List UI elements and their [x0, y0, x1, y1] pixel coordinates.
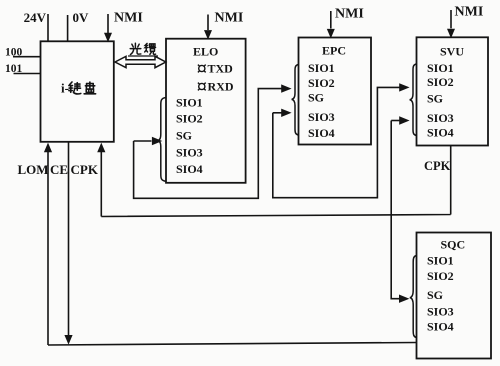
svg-text:24V: 24V — [24, 10, 47, 25]
glyph 光 — [130, 43, 141, 54]
wire LOM with up arrowhead into keyboard — [44, 143, 52, 345]
wire 0V — [67, 15, 69, 41]
label CPK (keyboard) — [71, 162, 99, 177]
label 0V — [73, 10, 90, 25]
svg-text:SIO3: SIO3 — [427, 305, 454, 319]
wire NMI SVU with arrowhead — [447, 10, 455, 38]
wire NMI ELO with arrowhead — [204, 15, 212, 40]
svg-text:SIO4: SIO4 — [427, 320, 454, 334]
svg-text:LOM: LOM — [18, 162, 49, 177]
svg-text:ELO: ELO — [193, 45, 218, 59]
svg-text:RXD: RXD — [208, 79, 234, 93]
symbol at TXD — [199, 65, 205, 71]
wire bottom bus SQC to keyboard — [48, 343, 417, 346]
wire link SVU-SQC — [391, 116, 409, 303]
svg-text:SIO1: SIO1 — [308, 61, 335, 75]
svg-text:CPK: CPK — [71, 162, 99, 177]
svg-text:SIO1: SIO1 — [427, 61, 454, 75]
svg-text:SIO1: SIO1 — [176, 95, 203, 109]
svg-text:SIO3: SIO3 — [427, 111, 454, 125]
svg-text:SIO1: SIO1 — [427, 254, 454, 268]
label 100 — [5, 47, 23, 59]
wire NMI keyboard with arrowhead — [104, 14, 112, 42]
symbol at RXD — [199, 83, 205, 89]
svg-text:i-: i- — [61, 81, 69, 96]
svg-text:SG: SG — [308, 91, 324, 105]
box SQC — [417, 233, 492, 359]
svg-text:SQC: SQC — [441, 238, 466, 252]
svg-text:SG: SG — [176, 129, 192, 143]
svg-text:CE: CE — [50, 162, 68, 177]
glyph 键 — [69, 82, 81, 94]
label LOM — [18, 162, 49, 177]
brace SQC SIO group — [410, 256, 417, 338]
svg-text:NMI: NMI — [455, 5, 484, 20]
svg-text:SIO2: SIO2 — [427, 269, 454, 283]
svg-text:SIO4: SIO4 — [176, 162, 203, 176]
svg-text:SIO2: SIO2 — [308, 76, 335, 90]
label NMI (ELO) — [215, 11, 244, 26]
svg-text:SG: SG — [427, 288, 443, 302]
label CE — [50, 162, 68, 177]
svg-text:EPC: EPC — [322, 44, 346, 58]
brace SVU SIO group — [410, 64, 417, 136]
glyph 缆 — [145, 43, 156, 54]
wire NMI EPC with arrowhead — [327, 11, 335, 38]
label NMI (keyboard) — [114, 11, 143, 26]
box SVU — [417, 37, 489, 145]
svg-text:SIO3: SIO3 — [308, 110, 335, 124]
svg-text:NMI: NMI — [335, 7, 364, 22]
svg-text:SG: SG — [427, 92, 443, 106]
svg-text:NMI: NMI — [215, 11, 244, 26]
wire link EPC-SVU — [273, 83, 410, 198]
wire 101 — [14, 73, 42, 75]
wire 100 — [13, 56, 41, 58]
svg-text:SIO4: SIO4 — [427, 125, 454, 139]
brace ELO SIO group — [157, 98, 166, 182]
double arrow optical link keyboard-ELO — [115, 56, 166, 67]
box i-keyboard (i-键盘) — [41, 41, 114, 142]
svg-text:SIO2: SIO2 — [176, 112, 203, 126]
svg-text:TXD: TXD — [208, 61, 234, 75]
svg-text:0V: 0V — [73, 10, 90, 25]
label 24V — [24, 10, 47, 25]
svg-text:NMI: NMI — [114, 11, 143, 26]
svg-text:CPK: CPK — [424, 159, 451, 173]
wire link ELO-EPC (arrow into ELO brace) — [134, 84, 292, 198]
svg-text:SIO4: SIO4 — [308, 126, 335, 140]
glyph 盘 — [84, 82, 96, 94]
wire CE with down arrowhead at bottom bus — [64, 142, 72, 345]
svg-text:SVU: SVU — [440, 45, 464, 59]
svg-text:SIO2: SIO2 — [427, 75, 454, 89]
wire 24V — [47, 14, 49, 41]
label NMI (SVU) — [455, 5, 484, 20]
svg-text:SIO3: SIO3 — [176, 146, 203, 160]
wire CPK return with up arrowhead into keyboard — [97, 143, 105, 217]
box ELO — [166, 39, 246, 183]
label 101 — [5, 63, 23, 75]
wire CPK from SVU down and across — [101, 146, 450, 217]
label 光缆 (optical cable) with underline — [128, 43, 158, 56]
label CPK (SVU) — [424, 159, 451, 173]
label NMI (EPC) — [335, 7, 364, 22]
brace EPC SIO group — [292, 65, 299, 136]
box EPC — [299, 38, 372, 145]
